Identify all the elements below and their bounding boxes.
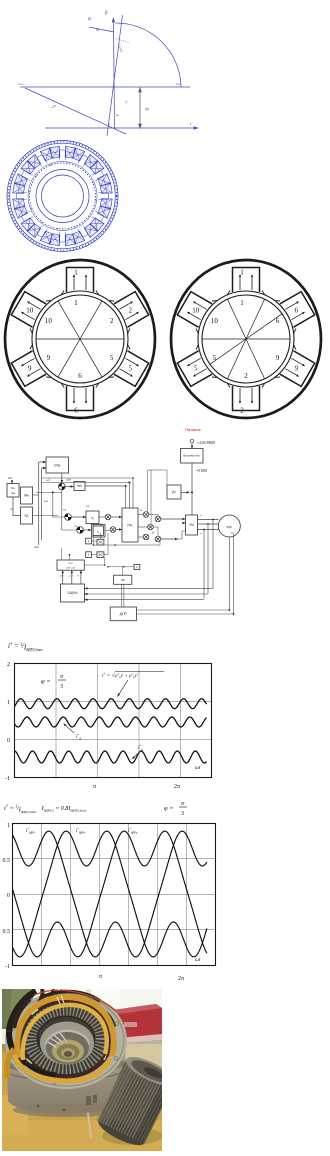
svg-text:2: 2 (7, 662, 10, 668)
svg-text:6: 6 (78, 372, 82, 380)
svg-text:Wк: Wк (77, 484, 82, 488)
svg-text:ПЗУ: ПЗУ (68, 562, 73, 565)
svg-text:ωt: ωt (195, 957, 201, 963)
svg-text:Выпрямитель: Выпрямитель (184, 454, 201, 458)
svg-text:-1: -1 (5, 776, 10, 782)
svg-text:i* = √(i*α)2 + (i*β)2: i* = √(i*α)2 + (i*β)2 (102, 672, 138, 679)
svg-text:-τωм: -τωм (18, 82, 25, 86)
svg-text:5: 5 (110, 354, 114, 362)
svg-text:β: β (104, 11, 108, 16)
svg-text:2: 2 (110, 317, 114, 325)
svg-text:9: 9 (276, 354, 280, 362)
svg-text:12: 12 (48, 163, 52, 167)
svg-text:10: 10 (211, 317, 219, 325)
svg-text:5: 5 (194, 365, 198, 373)
svg-text:2: 2 (240, 407, 244, 415)
svg-text:Wв: Wв (54, 462, 60, 467)
svg-text:11: 11 (35, 173, 38, 177)
svg-text:-1: -1 (5, 964, 10, 970)
svg-text:ωt: ωt (195, 765, 201, 771)
svg-text:Wн: Wн (24, 494, 29, 498)
svg-text:ДПР: ДПР (120, 612, 128, 616)
svg-text:ωм: ωм (44, 500, 48, 503)
svg-text:1: 1 (240, 299, 244, 307)
svg-text:kд: kд (25, 514, 29, 518)
svg-text:3: 3 (181, 811, 184, 817)
svg-text:∿: ∿ (91, 516, 95, 521)
svg-text:1: 1 (240, 269, 244, 277)
svg-text:π: π (93, 784, 96, 790)
svg-text:2π: 2π (178, 976, 184, 982)
svg-text:≈220/380В: ≈220/380В (197, 440, 215, 445)
svg-text:ПК: ПК (127, 522, 133, 527)
svg-text:φ =: φ = (41, 678, 51, 685)
svg-text:cosΘ: cosΘ (68, 576, 73, 578)
svg-text:∿: ∿ (96, 530, 99, 535)
svg-text:9: 9 (47, 354, 51, 362)
svg-text:iв: iв (200, 532, 202, 535)
svg-text:9: 9 (28, 365, 32, 373)
svg-text:φ =: φ = (164, 805, 174, 812)
svg-text:sinΘ cosΘ: sinΘ cosΘ (66, 568, 76, 570)
svg-text:=510В: =510В (196, 468, 207, 473)
svg-text:1: 1 (7, 700, 10, 706)
svg-text:10: 10 (192, 307, 200, 315)
svg-text:τωм: τωм (176, 82, 182, 86)
svg-text:tзад: tзад (34, 546, 39, 549)
svg-text:УМ: УМ (189, 523, 194, 527)
svg-text:1: 1 (74, 299, 78, 307)
svg-text:Дт: Дт (172, 490, 176, 494)
svg-text:3: 3 (60, 684, 63, 690)
svg-text:ВДР: ВДР (226, 525, 232, 529)
svg-text:6: 6 (74, 407, 78, 415)
svg-text:ψδ: ψδ (145, 106, 150, 111)
svg-text:sinΘ: sinΘ (59, 576, 64, 578)
svg-text:0: 0 (7, 738, 10, 744)
svg-text:φ: φ (108, 122, 110, 126)
svg-text:2: 2 (244, 372, 248, 380)
svg-text:0: 0 (7, 893, 10, 899)
svg-text:Питание: Питание (185, 427, 202, 432)
svg-text:БЦВМ: БЦВМ (68, 591, 78, 595)
svg-text:ωд: ωд (46, 478, 50, 482)
svg-text:10: 10 (26, 307, 34, 315)
svg-text:2: 2 (128, 307, 132, 315)
svg-text:Mс: Mс (7, 476, 13, 480)
svg-text:5: 5 (213, 354, 217, 362)
svg-text:2π: 2π (174, 784, 180, 790)
svg-text:1: 1 (74, 269, 78, 277)
svg-text:0.5: 0.5 (3, 858, 11, 864)
svg-text:Мн: Мн (11, 487, 15, 490)
svg-text:π: π (99, 974, 102, 980)
svg-text:0.5: 0.5 (3, 929, 11, 935)
svg-text:5: 5 (128, 365, 132, 373)
svg-text:9: 9 (294, 365, 298, 373)
svg-text:1: 1 (7, 823, 10, 829)
svg-text:6: 6 (276, 317, 280, 325)
svg-text:ЧВ: ЧВ (121, 578, 125, 582)
svg-text:10: 10 (45, 317, 53, 325)
svg-text:10: 10 (28, 189, 32, 193)
svg-text:6: 6 (294, 307, 298, 315)
